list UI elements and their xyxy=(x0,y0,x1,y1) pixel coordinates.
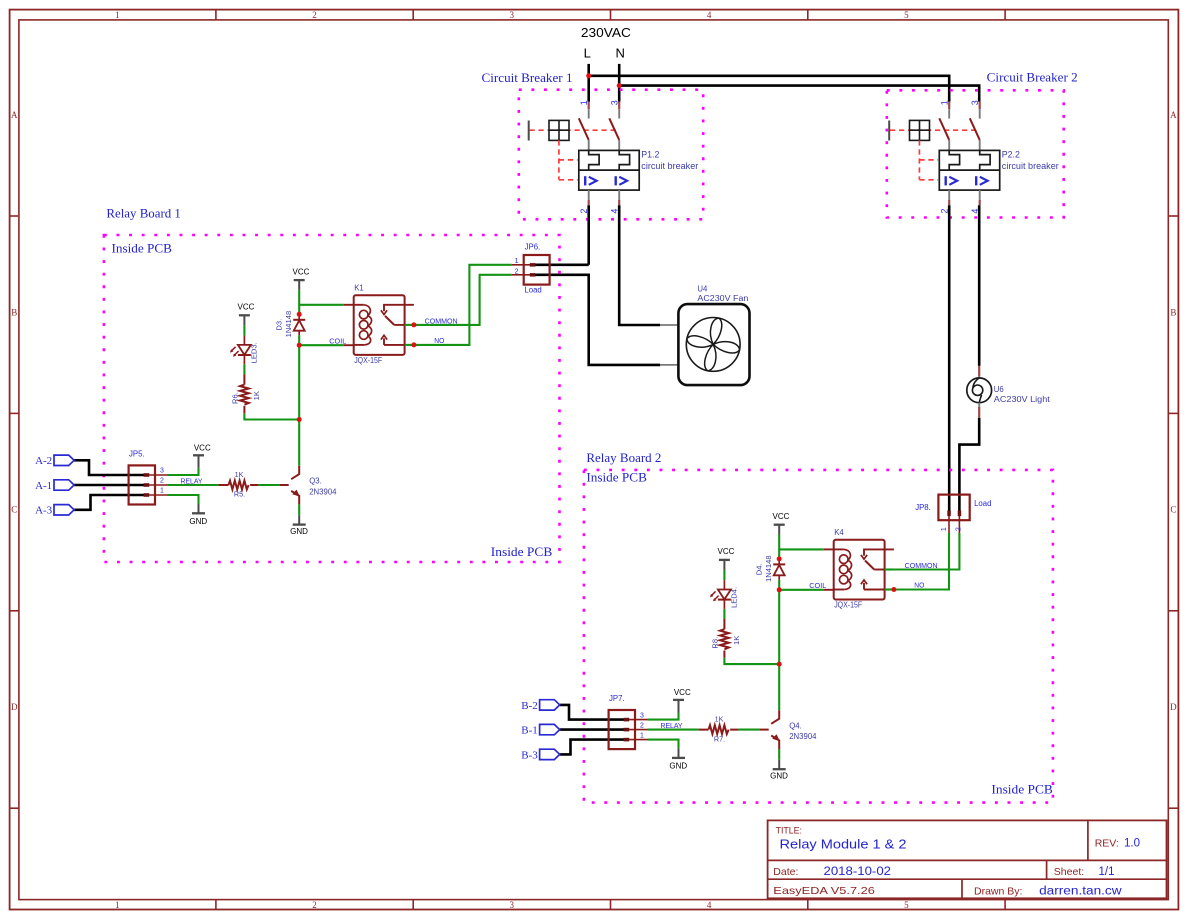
relay K1 NO pin xyxy=(384,344,405,346)
circuit breaker P2 pin 1 line xyxy=(948,102,950,110)
wire L drop xyxy=(587,64,590,102)
wire R5 to Q3 base xyxy=(258,484,279,486)
ground GND at JP7 xyxy=(678,749,680,758)
connector JP8 body xyxy=(938,495,969,521)
ground GND at Q3 xyxy=(298,515,300,524)
wire D4 anode down to Q4 collector xyxy=(778,590,780,664)
svg-text:Circuit Breaker 2: Circuit Breaker 2 xyxy=(987,71,1078,85)
svg-text:circuit breaker: circuit breaker xyxy=(1002,161,1059,171)
led LED3 anode pin xyxy=(243,336,245,345)
diode D3 anode pin xyxy=(298,331,300,336)
svg-text:230VAC: 230VAC xyxy=(581,25,631,40)
led LED4 emission arrows xyxy=(711,591,715,595)
connector JP7 body xyxy=(609,710,635,749)
circuit breaker P1 blade to body line pole 2 xyxy=(618,140,620,151)
frame column ticks top xyxy=(216,10,1005,20)
net flag B-3 xyxy=(540,749,560,759)
svg-text:1K: 1K xyxy=(732,636,741,645)
connector JP5 wire pads xyxy=(144,473,150,477)
diode D4 cathode pin xyxy=(778,559,780,565)
wire D3 anode to relay K1 coil- xyxy=(299,344,344,346)
wire from net flag B-2 xyxy=(560,705,627,720)
wire JP5 pin1 to GND xyxy=(168,495,199,504)
svg-text:1K: 1K xyxy=(235,470,244,479)
circuit breaker P1 switch blade pole 2 xyxy=(609,118,619,140)
connector JP5 pin stubs xyxy=(149,475,168,495)
lamp U6 pin bottom xyxy=(978,403,980,407)
svg-text:REV:: REV: xyxy=(1095,838,1119,850)
svg-text:R5.: R5. xyxy=(234,490,245,499)
svg-text:TITLE:: TITLE: xyxy=(776,825,802,835)
wire VCC to relay K4 coil+ xyxy=(779,535,824,550)
svg-text:L: L xyxy=(584,45,591,60)
resistor R7 leads xyxy=(699,729,739,731)
circuit breaker P2 pin 3 line xyxy=(979,102,981,110)
svg-text:A-2: A-2 xyxy=(35,455,52,467)
svg-text:NO: NO xyxy=(914,581,924,590)
svg-text:5: 5 xyxy=(904,900,909,910)
svg-text:3: 3 xyxy=(160,468,164,475)
svg-text:U6: U6 xyxy=(994,385,1004,394)
frame column ticks bottom xyxy=(216,900,1005,910)
svg-text:Q4.: Q4. xyxy=(789,721,802,730)
svg-text:Inside PCB: Inside PCB xyxy=(491,545,553,559)
op region box Circuit Breaker 1 dashed outline xyxy=(519,90,703,220)
svg-text:2N3904: 2N3904 xyxy=(309,487,337,496)
wire from net flag A-1 xyxy=(74,484,147,487)
wire breaker2 pin4 down to lamp xyxy=(978,205,981,366)
fan U4 circle xyxy=(686,318,740,372)
svg-text:EasyEDA V5.7.26: EasyEDA V5.7.26 xyxy=(773,885,875,897)
diode D4 cathode bar xyxy=(773,563,785,565)
svg-text:2: 2 xyxy=(955,527,962,531)
svg-text:2: 2 xyxy=(515,268,519,275)
title block outline xyxy=(768,820,1167,898)
wire JP6 pin1 black xyxy=(532,263,589,266)
svg-text:A: A xyxy=(1170,110,1177,120)
circuit breaker P2 group xyxy=(889,100,1059,213)
power VCC at JP7 xyxy=(678,700,680,713)
wire K1 COMMON up to JP6 pin2 xyxy=(414,275,512,325)
transistor Q4 emitter xyxy=(771,736,779,750)
wire lamp down to JP8 pin2 xyxy=(959,418,979,512)
svg-text:VCC: VCC xyxy=(773,512,790,521)
wire LED3 to R6 xyxy=(243,364,245,374)
circuit breaker P2 switch blade pole 2 xyxy=(970,118,980,140)
wire R7 to Q4 base xyxy=(738,729,759,731)
frame column labels bottom xyxy=(115,900,909,910)
diode D3 triangle xyxy=(294,320,305,330)
svg-text:darren.tan.cw: darren.tan.cw xyxy=(1039,885,1122,897)
resistor R6 leads xyxy=(243,374,245,413)
svg-text:D: D xyxy=(1170,702,1177,712)
circuit breaker P1 pin 4 line xyxy=(618,190,620,200)
relay K1 coil- pin xyxy=(344,344,354,346)
svg-text:A-1: A-1 xyxy=(35,480,52,492)
svg-text:JQX-15F: JQX-15F xyxy=(354,356,382,365)
svg-text:Relay Board 1: Relay Board 1 xyxy=(106,207,180,221)
wire JP7 pin3 to VCC xyxy=(648,713,679,720)
circuit breaker P1 body xyxy=(579,150,639,190)
relay K4 coil+ pin xyxy=(824,548,834,550)
wire R6 to collector node xyxy=(244,413,299,419)
circuit breaker P2 magnetic trip symbol pole 2 xyxy=(975,176,977,185)
resistor R8 zigzag xyxy=(720,629,729,649)
resistor R5 leads xyxy=(219,484,259,486)
svg-text:B-3: B-3 xyxy=(521,749,538,761)
wire D3 anode down to Q3 collector xyxy=(298,345,300,419)
wire JP7 pin1 to GND xyxy=(648,740,679,749)
circuit breaker P2 body xyxy=(939,150,999,190)
svg-text:4: 4 xyxy=(707,10,712,20)
circuit breaker P1 manual actuator lever xyxy=(528,121,530,141)
circuit breaker P1 switch blade pole 1 xyxy=(579,118,589,140)
svg-text:2: 2 xyxy=(312,900,317,910)
svg-text:R6.: R6. xyxy=(231,392,240,404)
ground GND at Q4 xyxy=(778,760,780,769)
resistor R7 zigzag xyxy=(709,725,729,734)
svg-text:R8.: R8. xyxy=(711,637,720,649)
svg-text:NO: NO xyxy=(434,336,444,345)
svg-text:VCC: VCC xyxy=(293,268,310,277)
svg-text:D4.: D4. xyxy=(755,563,764,575)
connector JP6 wire pads xyxy=(530,263,536,267)
svg-text:A: A xyxy=(11,110,18,120)
svg-text:C: C xyxy=(11,505,17,515)
wire from net flag B-1 xyxy=(560,728,627,731)
region box Relay Board 2 dashed outline xyxy=(584,470,1053,803)
resistor R5 zigzag xyxy=(229,481,249,490)
relay board 1 circuit group xyxy=(35,268,458,536)
wire N bus to breaker 2 xyxy=(619,86,979,102)
wire from net flag B-3 xyxy=(560,740,627,755)
circuit breaker P1 group xyxy=(529,100,699,213)
svg-text:P2.2: P2.2 xyxy=(1002,150,1020,160)
wire breaker2 pin2 down to JP8 pin1 xyxy=(948,205,951,512)
circuit breaker P1 thermal element pole 1 xyxy=(589,150,599,170)
svg-text:1K: 1K xyxy=(252,391,261,400)
svg-text:1: 1 xyxy=(115,10,120,20)
svg-text:VCC: VCC xyxy=(238,303,255,312)
relay board 2 circuit group xyxy=(521,512,937,780)
circuit breaker P1 dashed trip linkage xyxy=(559,140,578,179)
circuit breaker P1 blade to body line pole 1 xyxy=(588,140,590,151)
svg-text:JP8.: JP8. xyxy=(915,503,931,512)
circuit breaker P1 magnetic trip symbol pole 2 xyxy=(615,176,617,185)
relay K1 switch common arm xyxy=(384,305,414,311)
circuit breaker P1 pin 1 line xyxy=(588,102,590,110)
svg-text:LED3.: LED3. xyxy=(249,342,258,363)
connector JP7 wire pads xyxy=(624,718,630,722)
svg-text:5: 5 xyxy=(904,10,909,20)
node R6 junction xyxy=(298,420,300,466)
svg-text:B: B xyxy=(1170,307,1176,317)
diode D3 cathode pin xyxy=(298,314,300,320)
fan U4 blades xyxy=(687,318,740,371)
fan U4 body xyxy=(678,304,749,385)
connector JP5 body xyxy=(129,465,155,504)
svg-text:A-3: A-3 xyxy=(35,505,53,517)
relay K4 body xyxy=(834,540,885,600)
relay K1 coil xyxy=(354,304,364,306)
svg-text:Circuit Breaker 1: Circuit Breaker 1 xyxy=(482,71,573,85)
led LED4 anode pin xyxy=(723,580,725,589)
led LED3 cathode bar xyxy=(238,354,251,356)
led LED4 cathode bar xyxy=(718,599,731,601)
svg-text:VCC: VCC xyxy=(674,688,691,697)
wire VCC to LED4 xyxy=(723,570,725,580)
svg-text:LED4.: LED4. xyxy=(729,587,738,608)
svg-text:1: 1 xyxy=(579,100,589,105)
circuit breaker P1 actuator dashed link horizontal xyxy=(530,129,619,131)
wire JP7 pin2 to R7 net RELAY xyxy=(648,729,699,731)
frame row ticks left xyxy=(10,216,19,808)
connector JP7 pin stubs xyxy=(629,720,648,740)
svg-text:1: 1 xyxy=(939,100,949,105)
svg-text:K4: K4 xyxy=(834,528,844,537)
svg-text:4: 4 xyxy=(707,900,712,910)
svg-text:1/1: 1/1 xyxy=(1099,866,1115,878)
transistor Q4 base lead xyxy=(760,729,769,731)
svg-text:Q3.: Q3. xyxy=(309,477,322,486)
svg-text:JP5.: JP5. xyxy=(129,450,145,459)
svg-text:2018-10-02: 2018-10-02 xyxy=(824,866,892,878)
connector JP8 wire pads xyxy=(947,511,951,517)
svg-text:RELAY: RELAY xyxy=(661,721,683,730)
circuit breaker P2 magnetic trip symbol pole 1 xyxy=(945,176,947,185)
relay K4 NO pin xyxy=(864,589,885,591)
wire breaker1 pin2 down to JP6 pin1 xyxy=(587,205,590,264)
svg-text:2: 2 xyxy=(312,10,317,20)
svg-text:Load: Load xyxy=(524,285,541,294)
relay K1 coil+ pin xyxy=(344,304,354,306)
led LED3 triangle xyxy=(238,345,251,355)
svg-text:VCC: VCC xyxy=(718,547,735,556)
relay K4 coil- pin xyxy=(824,589,834,591)
relay K4 switch common arm xyxy=(864,549,894,555)
relay K4 coil xyxy=(834,548,844,550)
connector JP6 body xyxy=(524,255,550,285)
svg-text:K1: K1 xyxy=(354,283,364,292)
net flag A-3 xyxy=(54,505,74,515)
diode D3 cathode bar xyxy=(293,319,305,321)
relay K1 switch blade xyxy=(385,316,394,325)
wire VCC node down to D4 xyxy=(778,549,780,559)
svg-text:GND: GND xyxy=(669,762,687,771)
wire VCC node down to D3 xyxy=(298,305,300,315)
svg-text:2: 2 xyxy=(160,478,164,485)
transistor Q3 collector xyxy=(291,466,299,480)
svg-text:C: C xyxy=(1170,505,1176,515)
circuit breaker P2 actuator dashed link horizontal xyxy=(890,129,979,131)
led LED3 emission arrows xyxy=(231,347,235,351)
circuit breaker P1 actuator box xyxy=(549,120,569,140)
wire L bus to breaker 2 xyxy=(589,76,950,102)
resistor R6 zigzag xyxy=(240,385,249,405)
frame row ticks right xyxy=(1168,216,1178,808)
svg-text:Inside PCB: Inside PCB xyxy=(586,471,647,485)
wire LED4 to R8 xyxy=(723,609,725,619)
transistor Q3 emitter xyxy=(291,491,299,505)
wire D4 anode to relay K4 coil- xyxy=(779,589,824,591)
wire JP6 pin2 to fan xyxy=(532,275,660,365)
relay K1 NO contact arrow xyxy=(383,338,385,345)
led LED4 cathode pin xyxy=(723,600,725,609)
circuit breaker P2 actuator box xyxy=(910,120,930,140)
svg-text:Sheet:: Sheet: xyxy=(1054,866,1084,878)
wire VCC to LED3 xyxy=(243,325,245,335)
svg-text:R7.: R7. xyxy=(714,734,725,743)
svg-text:JP7.: JP7. xyxy=(609,694,625,703)
wire breaker1 pin4 down to fan xyxy=(619,205,660,325)
ground GND at JP5 xyxy=(198,504,200,513)
svg-text:1: 1 xyxy=(160,488,164,495)
svg-text:2: 2 xyxy=(640,722,644,729)
diode D4 anode pin xyxy=(778,575,780,580)
circuit breaker P1 pin 2 line xyxy=(588,190,590,200)
circuit breaker P1 pin 3 line xyxy=(618,102,620,110)
svg-text:U4: U4 xyxy=(697,285,708,294)
svg-text:2N3904: 2N3904 xyxy=(789,732,817,741)
svg-text:Date:: Date: xyxy=(773,866,798,878)
lamp U6 body xyxy=(967,378,992,403)
relay K1 body xyxy=(354,295,405,355)
svg-text:VCC: VCC xyxy=(194,443,211,452)
svg-text:Relay Module 1 & 2: Relay Module 1 & 2 xyxy=(780,837,907,852)
svg-text:P1.2: P1.2 xyxy=(641,150,659,160)
svg-text:JP6.: JP6. xyxy=(525,242,541,251)
relay K1 common pin xyxy=(394,324,404,326)
frame row labels right xyxy=(1170,110,1177,712)
relay K4 common pin xyxy=(874,569,884,571)
region box Circuit Breaker 2 dashed outline xyxy=(887,90,1064,217)
svg-text:RELAY: RELAY xyxy=(181,477,203,486)
svg-text:1N4148: 1N4148 xyxy=(284,311,293,338)
svg-text:N: N xyxy=(616,45,625,60)
wire JP5 pin3 to VCC xyxy=(168,468,199,475)
svg-text:GND: GND xyxy=(189,517,207,526)
svg-text:Inside PCB: Inside PCB xyxy=(991,783,1053,797)
svg-text:B: B xyxy=(11,307,17,317)
fan U4 pin lines xyxy=(660,324,678,326)
svg-text:1: 1 xyxy=(115,900,120,910)
svg-text:3: 3 xyxy=(510,10,515,20)
wire K1 NO up to JP6 pin1 xyxy=(414,265,512,345)
svg-text:circuit breaker: circuit breaker xyxy=(641,161,698,171)
svg-text:1: 1 xyxy=(640,732,644,739)
circuit breaker P2 blade to body line pole 1 xyxy=(948,140,950,151)
circuit breaker P2 blade to body line pole 2 xyxy=(979,140,981,151)
net flag B-1 xyxy=(540,724,560,734)
title block column dividers xyxy=(962,820,1088,898)
svg-text:Relay Board 2: Relay Board 2 xyxy=(586,451,661,465)
svg-text:3: 3 xyxy=(640,712,644,719)
svg-text:Drawn By:: Drawn By: xyxy=(974,885,1022,897)
svg-text:GND: GND xyxy=(290,527,308,536)
lamp U6 pin top xyxy=(978,366,980,377)
net flag B-2 xyxy=(540,700,560,710)
circuit breaker P1 magnetic trip symbol pole 1 xyxy=(584,176,586,185)
circuit breaker P2 thermal element pole 2 xyxy=(980,150,990,170)
circuit breaker P2 thermal element pole 1 xyxy=(949,150,959,170)
resistor R8 leads xyxy=(723,619,725,658)
led LED4 triangle xyxy=(718,590,731,600)
svg-text:B-1: B-1 xyxy=(521,725,538,737)
svg-text:3: 3 xyxy=(970,100,980,105)
power VCC at JP5 xyxy=(198,455,200,468)
wire R8 to collector node xyxy=(724,658,779,664)
node R8 junction xyxy=(778,664,780,710)
circuit breaker P1 thermal element pole 2 xyxy=(619,150,629,170)
connector JP8 pin stubs xyxy=(949,513,959,534)
svg-text:1: 1 xyxy=(941,527,948,531)
region box Relay Board 1 dashed outline xyxy=(104,235,560,562)
wire K4 COMMON up to JP8 pin2 xyxy=(894,533,960,570)
svg-text:3: 3 xyxy=(510,900,515,910)
frame row labels left xyxy=(11,110,18,712)
lamp U6 filament xyxy=(972,385,982,395)
wire K4 NO up to JP8 pin1 xyxy=(894,533,949,590)
circuit breaker P2 pin 2 line xyxy=(948,190,950,200)
net flag A-1 xyxy=(54,480,74,490)
svg-text:GND: GND xyxy=(770,772,788,781)
svg-text:AC230V Light: AC230V Light xyxy=(994,395,1051,404)
wire from net flag A-3 xyxy=(74,495,147,510)
svg-text:Inside PCB: Inside PCB xyxy=(112,241,173,255)
wire JP5 pin2 to R5 net RELAY xyxy=(168,484,219,486)
circuit breaker P2 manual actuator lever xyxy=(888,121,890,141)
svg-text:1N4148: 1N4148 xyxy=(764,555,773,582)
svg-text:Load: Load xyxy=(974,499,991,508)
wire from net flag A-2 xyxy=(74,460,147,475)
frame column labels top xyxy=(115,10,909,20)
svg-text:D: D xyxy=(11,702,18,712)
transistor Q4 collector xyxy=(771,710,779,724)
svg-text:1.0: 1.0 xyxy=(1124,838,1140,850)
circuit breaker P2 switch blade pole 1 xyxy=(939,118,949,140)
svg-text:1K: 1K xyxy=(715,715,724,724)
wire Q3 emitter to GND xyxy=(298,504,300,515)
wire Q4 emitter to GND xyxy=(778,749,780,760)
svg-text:AC230V Fan: AC230V Fan xyxy=(697,294,748,303)
circuit breaker P2 pin 4 line xyxy=(979,190,981,200)
svg-text:D3.: D3. xyxy=(275,319,284,331)
relay K4 NO contact arrow xyxy=(863,583,865,590)
circuit breaker P2 dashed trip linkage xyxy=(919,140,938,179)
title block row dividers xyxy=(768,860,1167,879)
net flag A-2 xyxy=(54,455,74,465)
svg-text:1: 1 xyxy=(515,258,519,265)
wire VCC to relay K1 coil+ xyxy=(299,290,344,305)
led LED3 cathode pin xyxy=(243,355,245,364)
svg-text:B-2: B-2 xyxy=(521,700,538,712)
connector JP6 pin stubs xyxy=(512,265,531,275)
wire N drop xyxy=(618,64,621,102)
diode D4 triangle xyxy=(774,565,785,575)
transistor Q3 base lead xyxy=(280,484,289,486)
svg-text:3: 3 xyxy=(609,100,619,105)
svg-text:JQX-15F: JQX-15F xyxy=(834,601,862,610)
relay K4 switch blade xyxy=(865,561,874,570)
